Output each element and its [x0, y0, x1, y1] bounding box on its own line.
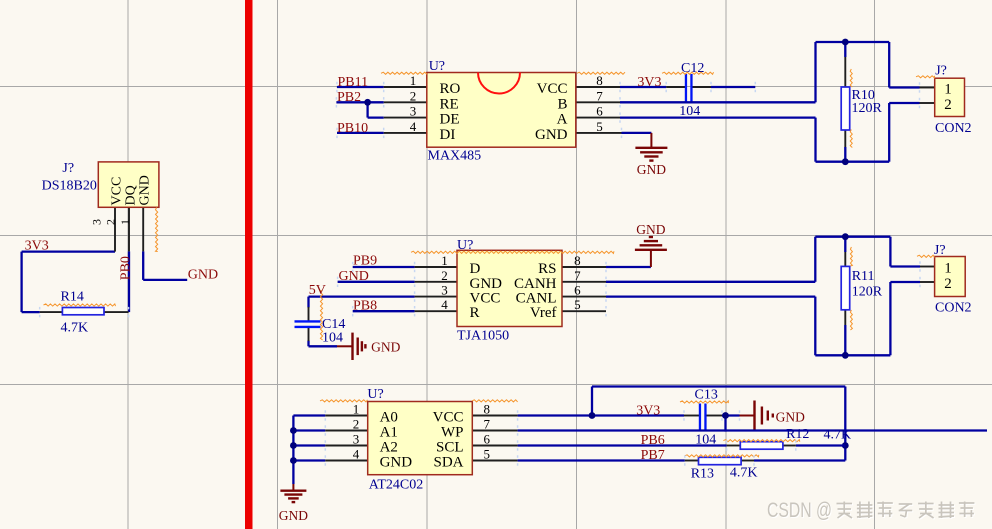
MAX485 notch arc: [478, 73, 520, 94]
ground symbol right of C14 (rotated): [337, 345, 353, 347]
wire RS to ground: [606, 266, 651, 268]
svg-text:1: 1: [944, 82, 952, 98]
resistor R10 top lead: [844, 57, 846, 87]
svg-text:120R: 120R: [852, 284, 883, 299]
connector J? CON2 lower body: [935, 257, 966, 297]
svg-text:5V: 5V: [309, 283, 326, 298]
TJA1050 pin 3 line: [415, 296, 457, 298]
svg-text:4: 4: [410, 119, 417, 134]
error squiggle left of MAX485 top: [381, 72, 427, 74]
svg-text:CANH: CANH: [514, 276, 557, 292]
svg-text:1: 1: [353, 402, 360, 417]
svg-text:5: 5: [574, 297, 581, 312]
wire to AT24C02 pin 4: [293, 459, 325, 461]
svg-text:J?: J?: [934, 243, 946, 258]
wire CANL to R11 network: [606, 295, 815, 297]
error squiggle over R13: [685, 455, 759, 457]
svg-text:GND: GND: [138, 175, 153, 205]
wire R12 to pull-up vertical: [796, 444, 846, 446]
TJA1050 pin 5 line: [562, 310, 606, 312]
svg-text:5: 5: [596, 119, 603, 134]
error squiggle above R14: [44, 304, 116, 306]
transceiver U? TJA1050 body: [457, 250, 562, 326]
wire C12 right: [711, 86, 755, 88]
wire 3V3 riser: [591, 387, 593, 416]
svg-text:4: 4: [353, 447, 360, 462]
wire to R14 left: [22, 311, 40, 313]
wire to AT24C02 pin 3: [293, 444, 325, 446]
svg-text:6: 6: [596, 104, 603, 119]
R11 network left vertical upper: [814, 237, 816, 282]
wire to AT24C02 pin 1: [293, 414, 325, 416]
wire endpoint markers: [336, 82, 338, 92]
svg-text:A0: A0: [380, 410, 398, 426]
svg-text:2: 2: [944, 276, 952, 292]
error squiggle right of C14: [320, 290, 322, 340]
svg-text:CSDN @: CSDN @: [767, 499, 832, 522]
svg-text:GND: GND: [279, 508, 308, 523]
wire to J? pin 2: [889, 102, 919, 104]
error squiggle over R12: [723, 440, 799, 442]
svg-text:J?: J?: [62, 161, 74, 176]
wire net A to R10 network: [620, 116, 816, 118]
svg-text:SCL: SCL: [436, 440, 464, 456]
svg-text:3V3: 3V3: [636, 404, 660, 419]
AT24C02 pin 7 line: [472, 430, 517, 432]
MAX485 pin 7 line: [576, 101, 620, 103]
capacitor C14 plates: [295, 320, 321, 322]
svg-text:GND: GND: [535, 127, 568, 143]
resistor R12 left lead: [727, 445, 741, 447]
svg-text:2: 2: [104, 219, 118, 225]
R11 network bottom wire: [815, 354, 890, 356]
error squiggle left of AT24C02 top: [320, 400, 368, 402]
svg-text:SDA: SDA: [433, 455, 463, 471]
svg-text:GND: GND: [339, 269, 369, 284]
svg-text:GND: GND: [637, 162, 666, 177]
wire GND from MAX485 pin 5: [622, 132, 652, 134]
capacitor C14 top lead: [308, 307, 310, 321]
resistor R13 right lead: [741, 460, 754, 462]
MAX485 pin 4 line: [384, 132, 427, 134]
wire net 5V horizontal: [309, 295, 415, 297]
resistor R10 body: [841, 87, 850, 130]
R10 network top wire: [816, 41, 890, 43]
svg-text:GND: GND: [380, 455, 413, 471]
svg-text:GND: GND: [188, 267, 218, 282]
svg-text:6: 6: [483, 432, 490, 447]
svg-text:PB0: PB0: [118, 256, 133, 280]
R11 network top wire: [815, 236, 890, 238]
wire WP row: [518, 429, 987, 431]
resistor R12 body: [740, 442, 783, 450]
connector J? CON2 upper pin 2 line: [920, 102, 935, 104]
wire net PB2: [336, 101, 383, 103]
svg-text:Vref: Vref: [530, 305, 557, 321]
svg-text:8: 8: [596, 73, 603, 88]
error squiggle R11 lower: [850, 310, 852, 330]
AT24C02 pin 8 line: [472, 415, 517, 417]
MAX485 pin 2 line: [384, 101, 427, 103]
junction VCC riser: [589, 412, 596, 419]
svg-text:PB7: PB7: [641, 448, 665, 463]
resistor R10 bottom lead: [844, 130, 846, 147]
wire PB2 branch to pin 3: [368, 116, 384, 118]
MAX485 pin 6 line: [576, 117, 620, 119]
wire CANH to R11 network: [606, 281, 815, 283]
svg-text:2: 2: [441, 268, 448, 283]
svg-text:VCC: VCC: [110, 177, 125, 206]
error squiggle over C13: [680, 401, 728, 403]
svg-text:DS18B20: DS18B20: [42, 179, 97, 194]
svg-text:8: 8: [483, 402, 490, 417]
svg-text:CANL: CANL: [516, 291, 557, 307]
svg-text:7: 7: [596, 88, 603, 103]
ground symbol right of C13 (rotated): [740, 415, 755, 417]
TJA1050 pin 2 line: [415, 281, 457, 283]
junction pull-up at R12 row: [842, 442, 849, 449]
op-amp U? MAX485 body: [427, 73, 576, 148]
resistor R11 top lead: [844, 252, 846, 266]
capacitor C14 bottom lead: [308, 328, 310, 342]
svg-text:R: R: [470, 305, 480, 321]
AT24C02 pin 6 line: [472, 445, 517, 447]
TJA1050 pin 7 line: [562, 281, 606, 283]
svg-text:3: 3: [410, 104, 417, 119]
AT24C02 pin 4 line: [325, 460, 367, 462]
connector J? DS18B20 pin 3 line: [114, 207, 116, 251]
resistor R14 body: [62, 308, 104, 315]
TJA1050 pin 8 line: [562, 266, 606, 268]
wire 3V3 to C12: [620, 86, 666, 88]
svg-text:A1: A1: [380, 425, 398, 441]
capacitor C12 right lead: [693, 86, 712, 88]
wire DQ vertical to R14 right: [128, 251, 130, 312]
R10 top connection wire: [844, 42, 846, 57]
junction bus pin2: [290, 427, 297, 434]
wire net PB8: [353, 310, 415, 312]
svg-text:A: A: [557, 112, 568, 128]
svg-text:3: 3: [353, 432, 360, 447]
capacitor C13 right lead: [707, 415, 723, 417]
R10 bottom connection wire: [844, 147, 846, 162]
svg-text:R14: R14: [61, 290, 84, 305]
svg-text:RS: RS: [538, 261, 556, 277]
connector J? CON2 upper body: [935, 78, 965, 116]
svg-text:PB9: PB9: [353, 254, 377, 269]
wire net PB10: [337, 132, 384, 134]
svg-text:3: 3: [90, 219, 104, 225]
svg-text:R11: R11: [852, 269, 875, 284]
capacitor C13 plates: [699, 404, 701, 431]
svg-text:1: 1: [410, 73, 417, 88]
eeprom U? AT24C02 body: [368, 402, 473, 475]
wire net B to R10 network: [620, 101, 816, 103]
svg-text:CON2: CON2: [935, 300, 972, 315]
capacitor C13 left lead: [684, 415, 699, 417]
connector J? DS18B20 pin 1 line: [142, 207, 144, 251]
svg-text:J?: J?: [935, 64, 947, 79]
svg-text:PB8: PB8: [353, 299, 377, 314]
AT24C02 pin 1 line: [325, 415, 367, 417]
svg-text:WP: WP: [441, 425, 464, 441]
junction R11 bottom: [842, 352, 849, 359]
connector J? CON2 lower pin 1 line: [920, 266, 935, 268]
svg-text:RO: RO: [440, 81, 461, 97]
error squiggle right of AT24C02 top: [472, 400, 518, 402]
error squiggle over C12: [662, 72, 714, 74]
svg-text:AT24C02: AT24C02: [369, 478, 423, 493]
ground symbol below MAX485: [650, 133, 652, 148]
svg-text:D: D: [470, 261, 481, 277]
AT24C02 pin 3 line: [325, 445, 367, 447]
svg-text:DQ: DQ: [124, 185, 139, 205]
connector J? CON2 lower pin 2 line: [920, 281, 935, 283]
ground symbol above RS (rotated 180): [650, 250, 652, 267]
svg-text:GND: GND: [636, 222, 665, 237]
wire SDA row to R13: [518, 459, 685, 461]
svg-text:104: 104: [322, 330, 343, 345]
wire to AT24C02 pin 2: [293, 429, 325, 431]
svg-text:4.7K: 4.7K: [730, 465, 758, 480]
wire net PB9: [353, 266, 415, 268]
svg-text:2: 2: [410, 88, 417, 103]
resistor R11 body: [841, 266, 850, 309]
svg-text:3V3: 3V3: [637, 75, 661, 90]
svg-text:3: 3: [441, 283, 448, 298]
svg-text:8: 8: [574, 253, 581, 268]
wire R13 to pull-up vertical: [754, 459, 845, 461]
wire C14 bottom to ground: [309, 345, 338, 347]
svg-text:DI: DI: [440, 127, 456, 143]
svg-text:3V3: 3V3: [25, 239, 49, 254]
wire 3V3 horizontal to DS18B20 VCC: [22, 250, 115, 252]
AT24C02 pin 2 line: [325, 430, 367, 432]
svg-text:4.7K: 4.7K: [824, 428, 852, 443]
connector J? CON2 upper pin 1 line: [920, 87, 935, 89]
wire SCL row to R12: [518, 444, 727, 446]
MAX485 pin 8 line: [576, 86, 620, 88]
error squiggle R11 upper: [850, 247, 852, 266]
wire GND vertical from DS18B20: [142, 251, 144, 280]
resistor R13 left lead: [685, 460, 699, 462]
TJA1050 pin 1 line: [415, 266, 457, 268]
svg-text:6: 6: [574, 283, 581, 298]
MAX485 pin 1 line: [384, 86, 427, 88]
svg-text:U?: U?: [429, 59, 445, 74]
R10 network right vertical upper: [888, 42, 890, 88]
wire to lower J? pin 1: [890, 265, 920, 267]
R10 network right vertical lower: [888, 103, 890, 162]
junction at C13 right: [722, 412, 729, 419]
error squiggle right of DS18B20: [156, 208, 158, 252]
svg-text:CON2: CON2: [935, 121, 972, 136]
resistor R11 bottom lead: [844, 310, 846, 325]
R11 top connection wire: [844, 237, 846, 252]
resistor R13 body: [699, 457, 742, 464]
TJA1050 pin 4 line: [415, 310, 457, 312]
svg-text:7: 7: [483, 417, 490, 432]
svg-text:120R: 120R: [852, 101, 883, 116]
R11 network left vertical lower: [814, 297, 816, 356]
wire to lower J? pin 2: [890, 281, 920, 283]
R11 network right vertical lower: [889, 282, 891, 355]
TJA1050 pin 6 line: [562, 296, 606, 298]
svg-text:1: 1: [441, 253, 448, 268]
R10 network left vertical lower: [814, 118, 816, 162]
wire 3V3 vertical: [20, 252, 22, 313]
wire PB2 branch vertical: [366, 102, 368, 117]
svg-text:4.7K: 4.7K: [61, 321, 89, 336]
error squiggle R10 lower: [850, 130, 852, 148]
connector J? DS18B20 body: [98, 162, 159, 207]
svg-text:C13: C13: [695, 387, 718, 402]
svg-text:VCC: VCC: [470, 291, 501, 307]
connector J? DS18B20 pin 2 line: [128, 207, 130, 251]
red divider line: [245, 0, 253, 529]
svg-text:GND: GND: [371, 339, 400, 354]
MAX485 pin 3 line: [384, 117, 427, 119]
svg-text:MAX485: MAX485: [428, 149, 482, 164]
svg-text:DE: DE: [440, 112, 460, 128]
svg-text:U?: U?: [367, 387, 383, 402]
wire 3V3 top horizontal: [592, 385, 845, 387]
wire net PB11: [337, 86, 384, 88]
resistor R12 right lead: [783, 445, 796, 447]
error squiggle R10 upper: [850, 69, 852, 87]
wire C13 right to junction: [722, 414, 740, 416]
error squiggle at CON2 lower: [917, 255, 935, 257]
svg-text:7: 7: [574, 268, 581, 283]
R11 network right vertical upper: [889, 237, 891, 267]
svg-text:1: 1: [944, 261, 952, 277]
error squiggle right of MAX485 top: [577, 72, 625, 74]
R10 network left vertical upper: [814, 42, 816, 102]
svg-text:GND: GND: [470, 276, 503, 292]
wire 5V vertical lower: [307, 341, 309, 347]
AT24C02 pin 5 line: [472, 460, 517, 462]
wire VCC row to C13: [518, 414, 684, 416]
R11 bottom connection wire: [844, 325, 846, 355]
svg-text:TJA1050: TJA1050: [457, 329, 509, 344]
junction R10 top: [842, 39, 849, 46]
junction at PB2 branch: [364, 99, 371, 106]
junction bus pin4: [290, 457, 297, 464]
svg-text:PB2: PB2: [337, 90, 361, 105]
capacitor C12 plates: [685, 74, 687, 102]
error squiggle over TJA1050 top: [411, 251, 614, 253]
svg-text:PB10: PB10: [337, 121, 368, 136]
junction R10 bottom: [842, 158, 849, 165]
error squiggle at CON2 upper: [916, 76, 935, 78]
MAX485 pin 5 line: [576, 132, 622, 134]
resistor R14 left lead: [40, 311, 63, 313]
svg-text:RE: RE: [440, 96, 459, 112]
svg-text:2: 2: [353, 417, 360, 432]
svg-text:PB6: PB6: [641, 433, 665, 448]
svg-text:1: 1: [118, 219, 132, 225]
svg-text:R13: R13: [691, 467, 714, 482]
svg-text:4: 4: [441, 297, 448, 312]
svg-text:2: 2: [944, 97, 952, 113]
R10 network bottom wire: [816, 161, 890, 163]
junction bus pin3: [290, 442, 297, 449]
capacitor C12 left lead: [666, 86, 685, 88]
wire net GND to TJA1050 pin 2: [338, 281, 415, 283]
resistor R14 right lead: [104, 311, 129, 313]
wire pull-up vertical: [844, 387, 846, 461]
svg-text:B: B: [557, 96, 567, 112]
svg-text:5: 5: [483, 447, 490, 462]
wire 5V vertical upper: [307, 297, 309, 308]
svg-text:VCC: VCC: [537, 81, 568, 97]
wire stub below C13 junction: [724, 416, 726, 432]
svg-text:GND: GND: [776, 409, 805, 424]
svg-text:VCC: VCC: [433, 410, 464, 426]
wire AT24C02 left bus vertical: [292, 416, 294, 485]
junction R11 top: [842, 233, 849, 240]
svg-text:A2: A2: [380, 440, 398, 456]
wire to J? pin 1: [889, 86, 919, 88]
svg-text:PB11: PB11: [338, 75, 369, 90]
wire GND horizontal: [143, 279, 187, 281]
ground symbol below AT24C02: [292, 484, 294, 491]
